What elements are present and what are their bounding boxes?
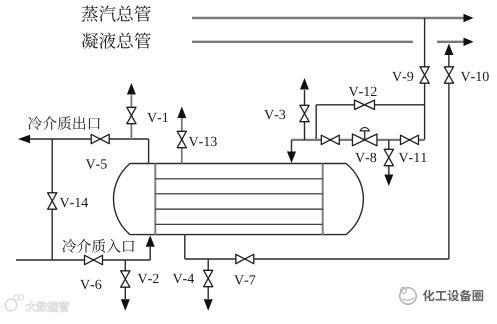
logo 化工设备圈 (400, 288, 483, 305)
valve V-4 (204, 270, 213, 286)
label V-14 (60, 198, 88, 207)
valve V-5 (91, 134, 109, 143)
wire V-3 vent line (300, 78, 309, 140)
label V-10 (461, 72, 489, 82)
label V-5 (86, 159, 107, 168)
wire V-11 drain line (384, 140, 393, 186)
wire cold inlet line (16, 235, 155, 260)
wire cold outlet line (18, 135, 149, 164)
valve V-10 (444, 67, 453, 83)
label V-11 (399, 153, 427, 162)
tube sheet left (154, 164, 156, 235)
label V-3 (264, 110, 285, 119)
valve V-6 (85, 255, 103, 264)
tube line 3 (155, 208, 322, 210)
tube line 2 (155, 193, 322, 195)
valve station block left (321, 135, 339, 144)
valve V-1 (127, 107, 136, 123)
label V-7 (234, 275, 255, 284)
label V-4 (173, 274, 194, 283)
wire V-12 bypass (316, 105, 424, 140)
tube sheet right (322, 164, 324, 235)
wire V-10 riser (444, 44, 453, 260)
wire V-2 drain line (121, 260, 130, 311)
valve V-12 (355, 100, 375, 109)
label V-2 (138, 274, 159, 283)
label condensate header 凝液总管 (82, 32, 151, 48)
wire V-14 bypass line (51, 139, 53, 260)
heat exchanger shell E1 (113, 164, 363, 235)
valve V-2 (121, 271, 130, 287)
valve station block right (401, 135, 419, 144)
wire condensate main header right segment (437, 38, 474, 47)
label V-9 (392, 72, 413, 81)
label V-1 (147, 113, 168, 122)
label cold medium outlet 冷介质出口 (28, 116, 100, 130)
label V-8 (355, 153, 376, 163)
wire V-13 vent line (177, 107, 186, 164)
wire V-9 riser (424, 18, 426, 140)
valve V-3 (300, 105, 309, 121)
valve V-13 (177, 131, 186, 147)
valve V-11 (384, 149, 393, 165)
valve V-7 (236, 254, 254, 263)
label cold medium inlet 冷介质入口 (62, 239, 134, 253)
wire V-1 vent line (127, 83, 136, 139)
wire drop to shell inlet (287, 140, 296, 163)
watermark logo bottom-left (5, 295, 68, 312)
label V-6 (80, 280, 101, 289)
valve V-8 control (352, 128, 377, 146)
wire steam main header (192, 14, 474, 23)
label V-12 (349, 87, 377, 96)
valve V-14 (48, 193, 57, 209)
label steam header 蒸汽总管 (82, 6, 151, 22)
label V-13 (189, 137, 217, 146)
wire steam station line (292, 139, 425, 141)
wire condensate main header left segment (192, 41, 413, 43)
tube line 1 (155, 178, 322, 180)
valve V-9 (420, 67, 429, 83)
wire condensate line (185, 235, 449, 259)
wire V-4 drain line (204, 259, 213, 311)
tube line 4 (155, 223, 322, 225)
